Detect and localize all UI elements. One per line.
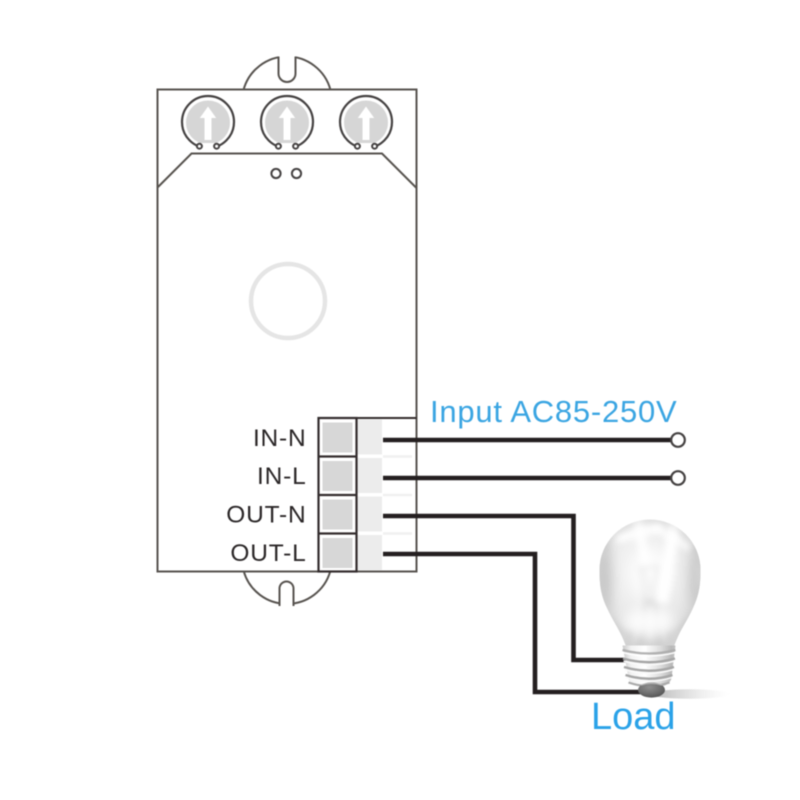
adjustment knob 1 <box>182 96 234 152</box>
filament stem <box>642 601 659 648</box>
frosting blotches <box>680 522 706 554</box>
bulb neck flutes <box>628 632 671 651</box>
label IN-L <box>257 463 306 490</box>
svg-text:Input AC85-250V: Input AC85-250V <box>430 394 677 429</box>
globe rim accent <box>600 520 701 649</box>
terminal screw 4 <box>323 538 353 568</box>
terminal screw 1 <box>323 423 353 453</box>
label IN-N <box>253 425 307 452</box>
sensor button circle <box>251 264 325 338</box>
top mounting tab <box>244 50 331 90</box>
input terminal L <box>671 471 685 485</box>
terminal strip shading <box>357 420 383 455</box>
adjustment knob 3 <box>340 96 392 152</box>
front panel separator line <box>158 154 417 189</box>
screw thread 1 <box>623 659 675 663</box>
wire IN-N <box>383 438 671 443</box>
svg-text:IN-N: IN-N <box>253 425 307 452</box>
base collar rim <box>623 650 676 654</box>
screw thread 3 <box>626 675 673 679</box>
light bulb (load) <box>593 513 730 699</box>
screw thread 2 <box>624 667 674 671</box>
adjustment knob 2 <box>261 96 313 152</box>
terminal block top edge <box>357 417 417 419</box>
indicator LED dot 1 <box>271 169 280 178</box>
terminal screw 2 <box>323 461 353 491</box>
svg-text:Load: Load <box>591 696 676 738</box>
screw base <box>623 646 676 689</box>
bulb shadow <box>650 689 730 699</box>
module enclosure outline <box>158 90 417 572</box>
wire OUT-N <box>383 516 626 660</box>
svg-text:IN-L: IN-L <box>257 463 306 490</box>
glass highlight streaks <box>655 518 682 604</box>
terminal block <box>319 418 417 572</box>
label OUT-L <box>230 540 306 567</box>
wire OUT-L <box>383 554 646 692</box>
terminal screw 3 <box>323 500 353 530</box>
svg-text:OUT-N: OUT-N <box>226 502 306 529</box>
bulb glass shading <box>593 513 708 651</box>
terminal row divider shading <box>383 457 412 534</box>
module body <box>158 50 417 606</box>
input terminal N <box>671 433 685 447</box>
indicator LED dot 2 <box>292 169 301 178</box>
svg-text:OUT-L: OUT-L <box>230 540 306 567</box>
screw thread 4 <box>629 683 670 687</box>
label Input AC85-250V <box>430 394 677 429</box>
label Load <box>591 696 676 738</box>
label OUT-N <box>226 502 306 529</box>
bulb glass globe <box>600 520 701 649</box>
bottom mounting tab <box>244 572 330 607</box>
base contact tip <box>638 682 665 697</box>
wire IN-L <box>383 476 671 481</box>
terminal cell frame <box>319 418 357 572</box>
